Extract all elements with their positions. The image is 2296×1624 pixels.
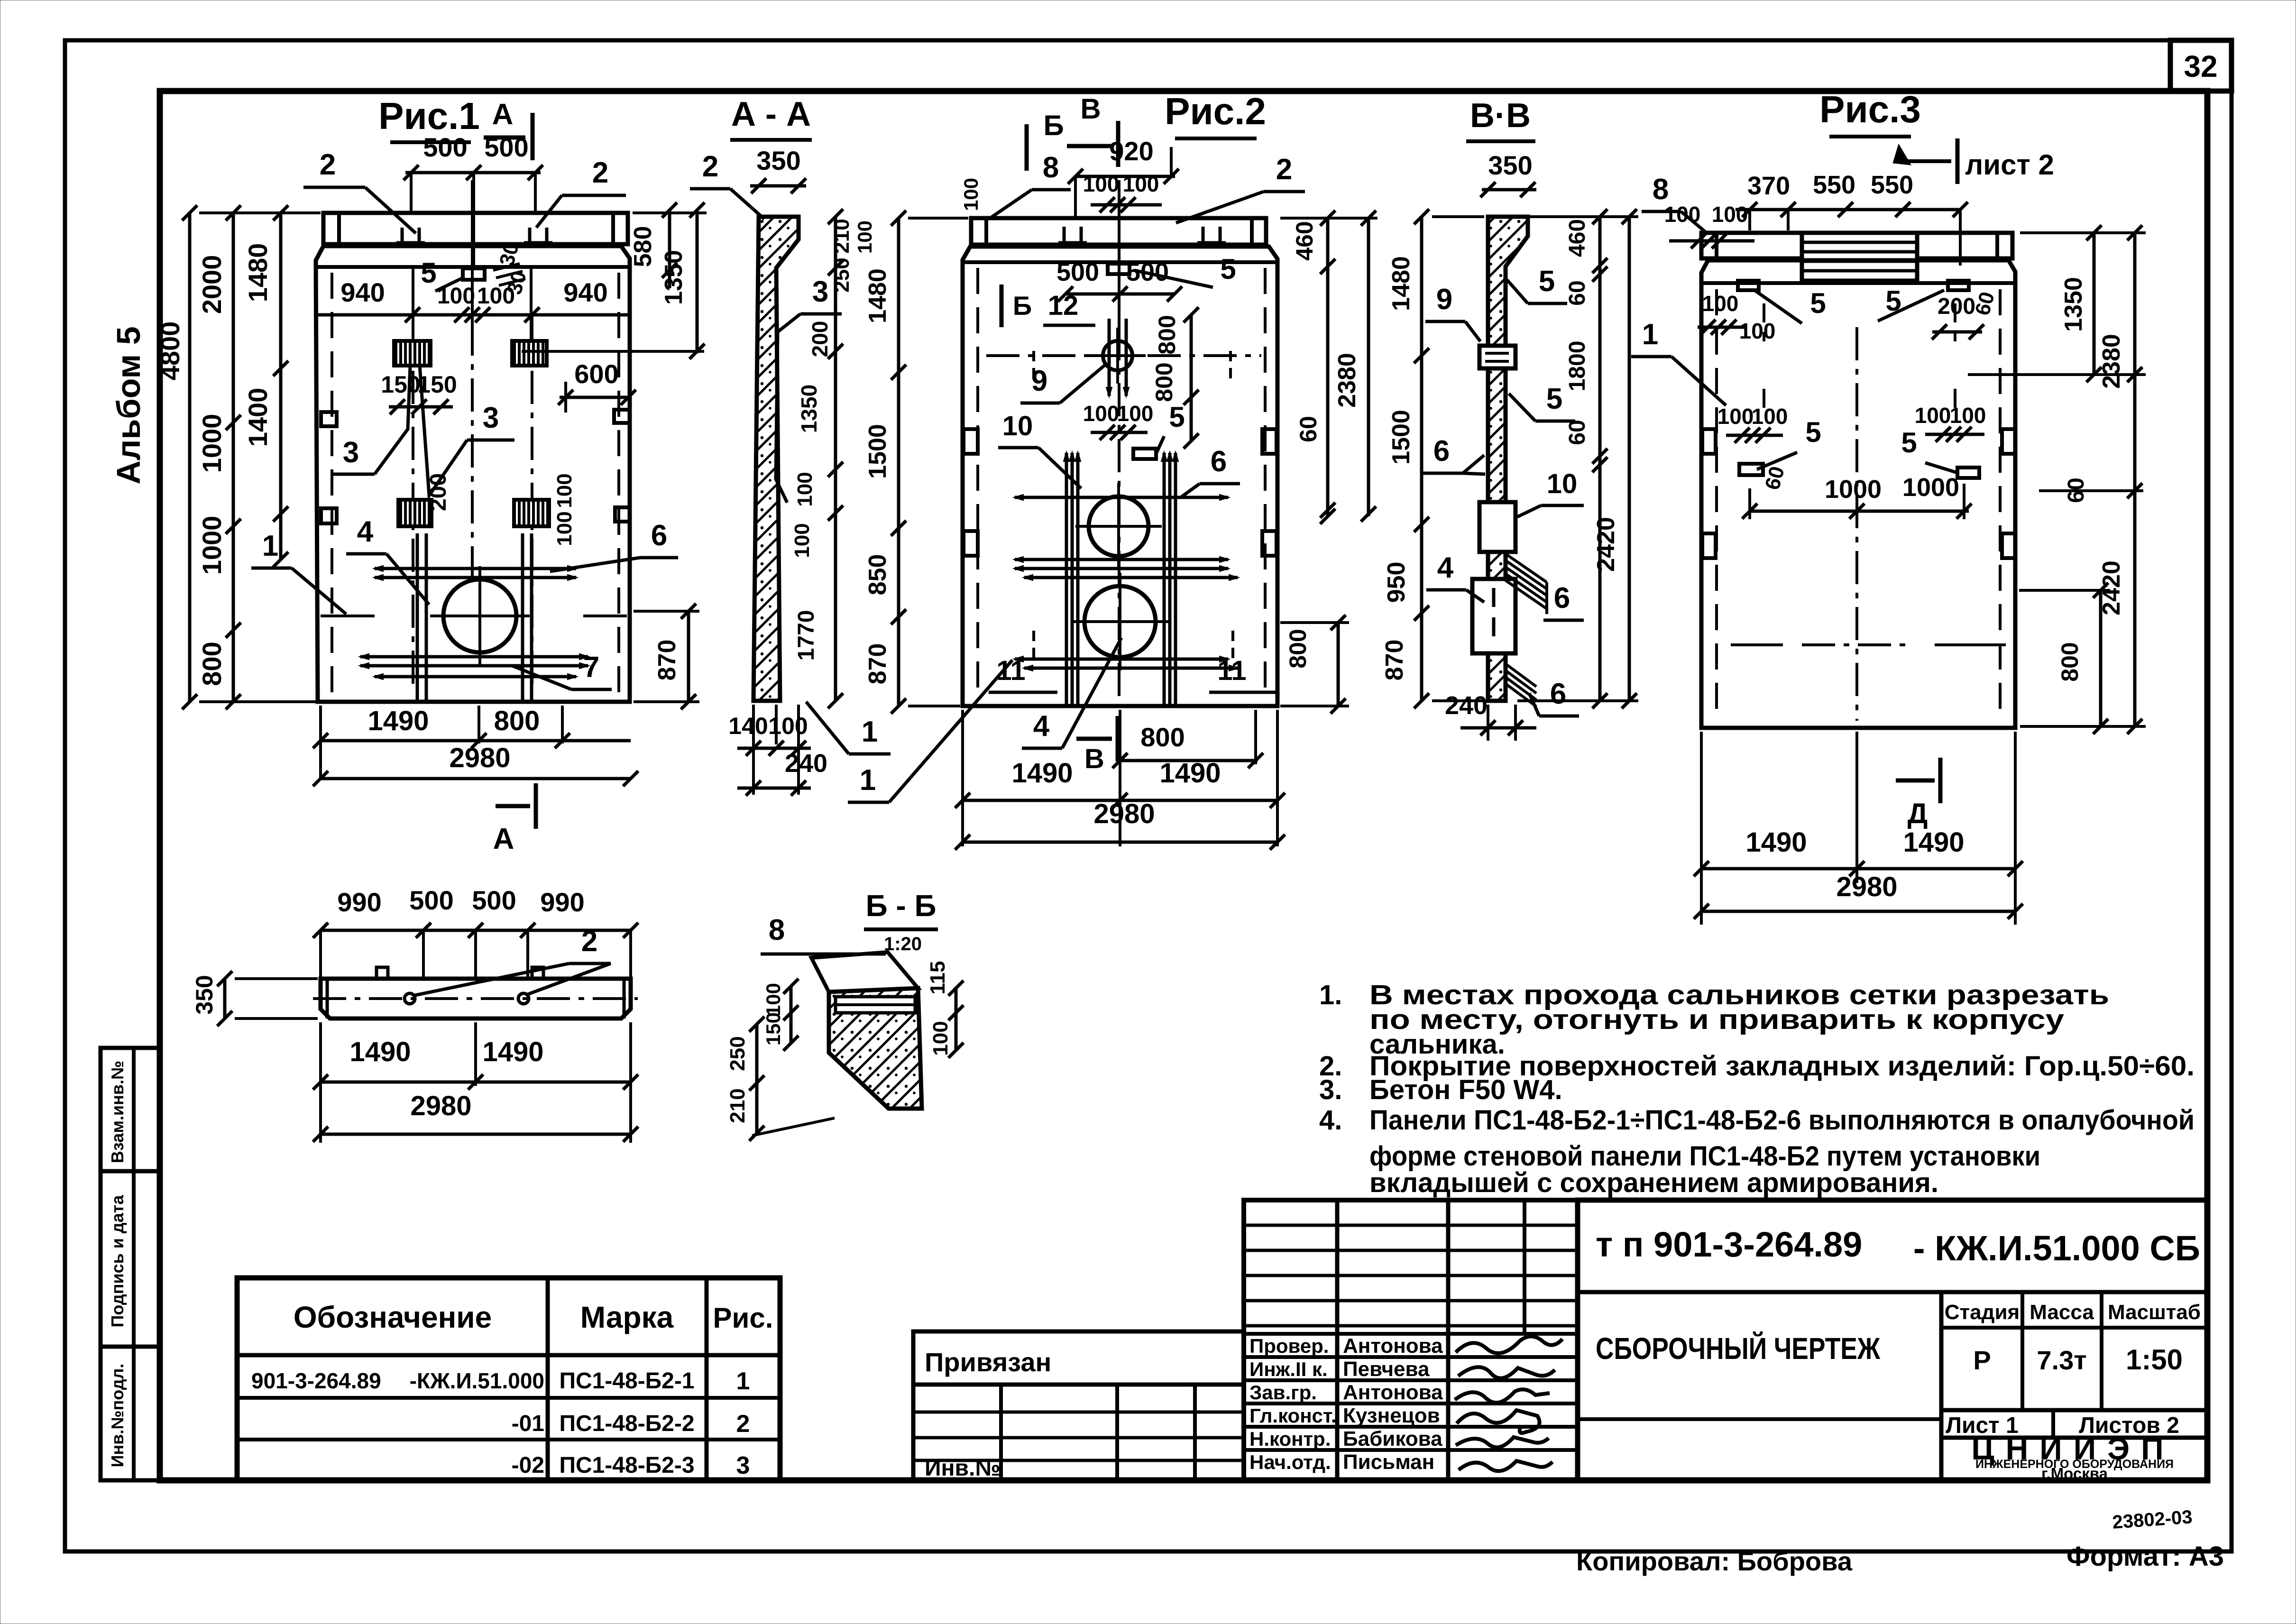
svg-text:Б: Б <box>1043 110 1064 141</box>
svg-text:3: 3 <box>812 275 828 308</box>
svg-text:Формат: А3: Формат: А3 <box>2066 1541 2224 1572</box>
svg-text:210: 210 <box>726 1088 749 1123</box>
svg-text:Инж.II к.: Инж.II к. <box>1249 1358 1328 1380</box>
svg-text:240: 240 <box>1445 691 1488 720</box>
svg-text:1350: 1350 <box>660 250 688 305</box>
svg-text:Гл.конст.: Гл.конст. <box>1249 1404 1336 1427</box>
svg-text:800: 800 <box>1151 362 1177 402</box>
svg-text:870: 870 <box>864 643 891 685</box>
svg-text:200: 200 <box>808 321 832 358</box>
svg-text:6: 6 <box>1554 582 1570 615</box>
svg-text:вкладышей с сохранением армиро: вкладышей с сохранением армирования. <box>1369 1167 1938 1198</box>
svg-text:2380: 2380 <box>1333 353 1361 408</box>
svg-text:100: 100 <box>553 511 576 546</box>
svg-text:2: 2 <box>592 156 608 189</box>
svg-text:Инв.№подл.: Инв.№подл. <box>108 1364 127 1468</box>
svg-text:Масштаб: Масштаб <box>2108 1301 2201 1324</box>
svg-text:Масса: Масса <box>2030 1301 2094 1324</box>
svg-text:Подпись и дата: Подпись и дата <box>108 1195 127 1328</box>
svg-text:11: 11 <box>1217 655 1246 686</box>
svg-text:4: 4 <box>1437 551 1454 584</box>
svg-text:т п 901-3-264.89: т п 901-3-264.89 <box>1596 1225 1862 1264</box>
svg-text:115: 115 <box>926 961 949 995</box>
svg-text:1000: 1000 <box>197 414 227 473</box>
svg-text:1: 1 <box>262 530 278 562</box>
svg-text:100: 100 <box>437 284 475 309</box>
svg-text:920: 920 <box>1109 136 1153 166</box>
svg-text:Кузнецов: Кузнецов <box>1343 1404 1440 1427</box>
svg-text:6: 6 <box>1211 445 1227 478</box>
svg-text:100: 100 <box>762 983 784 1016</box>
svg-text:500: 500 <box>472 885 516 915</box>
svg-text:1770: 1770 <box>794 610 819 661</box>
svg-text:200: 200 <box>426 473 451 511</box>
svg-text:5: 5 <box>1810 287 1826 319</box>
svg-text:Панели ПС1-48-Б2-1÷ПС1-48-Б2-6: Панели ПС1-48-Б2-1÷ПС1-48-Б2-6 выполняют… <box>1369 1105 2195 1136</box>
svg-text:1:20: 1:20 <box>884 934 922 954</box>
svg-text:350: 350 <box>756 146 800 175</box>
svg-text:870: 870 <box>653 640 681 681</box>
svg-text:370: 370 <box>1747 172 1790 200</box>
svg-text:Бабикова: Бабикова <box>1343 1427 1442 1450</box>
svg-text:2980: 2980 <box>1093 798 1155 829</box>
svg-text:Бетон F50 W4.: Бетон F50 W4. <box>1369 1074 1562 1105</box>
svg-text:100: 100 <box>1950 403 1986 428</box>
svg-text:100: 100 <box>768 713 808 739</box>
svg-text:1490: 1490 <box>1011 758 1073 789</box>
svg-text:1350: 1350 <box>797 385 821 433</box>
svg-text:580: 580 <box>629 226 657 267</box>
svg-text:-02: -02 <box>512 1453 544 1478</box>
svg-text:32: 32 <box>2184 49 2217 83</box>
svg-text:1490: 1490 <box>482 1037 543 1067</box>
svg-text:1490: 1490 <box>367 706 429 736</box>
svg-text:100: 100 <box>1117 401 1154 426</box>
svg-text:800: 800 <box>494 706 540 736</box>
svg-text:100: 100 <box>1083 172 1120 196</box>
svg-text:800: 800 <box>1285 629 1311 668</box>
svg-text:Письман: Письман <box>1343 1450 1434 1474</box>
svg-text:А - А: А - А <box>731 95 811 133</box>
svg-text:60: 60 <box>1295 416 1322 442</box>
svg-text:Б - Б: Б - Б <box>866 889 937 923</box>
svg-text:800: 800 <box>1154 315 1180 354</box>
svg-text:Д: Д <box>1908 798 1928 829</box>
svg-text:6: 6 <box>1433 435 1450 468</box>
svg-text:5: 5 <box>1901 427 1917 459</box>
svg-text:Р: Р <box>1973 1345 1991 1375</box>
svg-text:500: 500 <box>423 132 467 162</box>
svg-text:5: 5 <box>1220 253 1236 285</box>
svg-text:500: 500 <box>409 885 453 915</box>
svg-text:1480: 1480 <box>1387 256 1415 311</box>
svg-text:1000: 1000 <box>1902 473 1959 502</box>
svg-text:100: 100 <box>1739 319 1776 343</box>
svg-text:1: 1 <box>860 764 876 797</box>
svg-text:Рис.3: Рис.3 <box>1819 88 1921 130</box>
svg-text:550: 550 <box>1813 171 1855 199</box>
svg-text:100: 100 <box>477 284 515 309</box>
svg-text:2380: 2380 <box>2098 334 2125 389</box>
svg-text:150: 150 <box>381 371 420 398</box>
svg-text:100: 100 <box>1717 404 1754 429</box>
svg-text:Антонова: Антонова <box>1343 1381 1443 1404</box>
svg-text:1480: 1480 <box>864 268 891 323</box>
svg-text:1: 1 <box>736 1367 750 1395</box>
svg-text:870: 870 <box>1381 640 1408 681</box>
svg-text:8: 8 <box>1043 151 1059 184</box>
svg-text:5: 5 <box>421 257 436 289</box>
svg-text:5: 5 <box>1805 416 1821 448</box>
svg-text:2980: 2980 <box>449 743 510 773</box>
svg-text:60: 60 <box>1565 280 1590 305</box>
svg-text:А: А <box>492 98 514 131</box>
svg-text:г.Москва: г.Москва <box>2041 1465 2108 1482</box>
svg-text:940: 940 <box>340 277 385 307</box>
svg-text:ПС1-48-Б2-3: ПС1-48-Б2-3 <box>559 1453 694 1478</box>
svg-text:2420: 2420 <box>1592 517 1620 572</box>
svg-text:Инв.№: Инв.№ <box>925 1456 1001 1481</box>
svg-text:460: 460 <box>1565 219 1590 257</box>
svg-text:350: 350 <box>191 975 218 1014</box>
svg-text:1490: 1490 <box>1159 758 1221 789</box>
svg-text:350: 350 <box>1488 150 1532 180</box>
svg-text:2: 2 <box>702 150 718 183</box>
svg-text:100: 100 <box>793 472 817 506</box>
svg-text:1000: 1000 <box>1825 475 1882 504</box>
svg-text:990: 990 <box>540 887 584 917</box>
svg-text:100: 100 <box>790 523 814 558</box>
svg-text:1490: 1490 <box>349 1037 411 1067</box>
svg-text:1:50: 1:50 <box>2126 1344 2183 1376</box>
svg-text:1490: 1490 <box>1745 827 1807 858</box>
svg-text:-01: -01 <box>512 1411 544 1436</box>
svg-text:100: 100 <box>1123 172 1159 196</box>
svg-text:8: 8 <box>1653 173 1669 206</box>
svg-text:100: 100 <box>1752 404 1788 429</box>
svg-text:10: 10 <box>1002 411 1033 441</box>
svg-text:Рис.: Рис. <box>713 1302 773 1334</box>
svg-text:140: 140 <box>728 713 768 739</box>
svg-text:Зав.гр.: Зав.гр. <box>1249 1381 1317 1404</box>
svg-text:500: 500 <box>484 132 528 162</box>
svg-text:Марка: Марка <box>580 1300 674 1334</box>
svg-text:100: 100 <box>1915 403 1951 428</box>
svg-text:1: 1 <box>1642 318 1658 351</box>
svg-text:150: 150 <box>762 1012 784 1046</box>
svg-text:- КЖ.И.51.000 СБ: - КЖ.И.51.000 СБ <box>1913 1229 2200 1268</box>
svg-text:6: 6 <box>1550 678 1566 710</box>
svg-text:ПС1-48-Б2-1: ПС1-48-Б2-1 <box>559 1368 694 1394</box>
svg-text:1350: 1350 <box>2060 277 2087 332</box>
svg-text:100: 100 <box>960 178 982 211</box>
svg-text:4.: 4. <box>1319 1105 1342 1136</box>
svg-text:Б: Б <box>1013 291 1032 321</box>
svg-text:3.: 3. <box>1319 1074 1342 1105</box>
svg-text:1480: 1480 <box>243 243 273 303</box>
svg-text:Привязан: Привязан <box>925 1347 1051 1377</box>
svg-text:940: 940 <box>563 277 607 307</box>
svg-text:800: 800 <box>2057 642 2083 681</box>
svg-text:100: 100 <box>929 1021 952 1055</box>
svg-text:1400: 1400 <box>243 388 273 447</box>
svg-text:В: В <box>1084 743 1104 774</box>
svg-text:100: 100 <box>854 220 876 254</box>
svg-text:60: 60 <box>1565 420 1590 445</box>
svg-text:ПС1-48-Б2-2: ПС1-48-Б2-2 <box>559 1411 694 1436</box>
svg-text:1000: 1000 <box>197 516 227 575</box>
svg-text:800: 800 <box>1140 722 1185 752</box>
svg-text:2980: 2980 <box>410 1091 471 1121</box>
svg-text:Провер.: Провер. <box>1249 1335 1329 1357</box>
svg-text:460: 460 <box>1291 221 1318 260</box>
svg-text:-КЖ.И.51.000: -КЖ.И.51.000 <box>410 1368 544 1393</box>
svg-text:100: 100 <box>1702 291 1739 316</box>
svg-text:лист 2: лист 2 <box>1965 149 2054 181</box>
svg-text:250: 250 <box>726 1036 749 1071</box>
svg-text:5: 5 <box>1546 383 1562 415</box>
svg-text:Стадия: Стадия <box>1945 1301 2020 1324</box>
svg-text:Антонова: Антонова <box>1343 1334 1443 1358</box>
svg-text:1: 1 <box>862 716 878 748</box>
svg-text:1500: 1500 <box>864 424 891 479</box>
svg-text:950: 950 <box>1383 562 1410 603</box>
svg-text:Обозначение: Обозначение <box>294 1300 492 1334</box>
svg-text:2980: 2980 <box>1836 872 1897 902</box>
svg-text:Рис.1: Рис.1 <box>378 95 480 137</box>
svg-text:Н.контр.: Н.контр. <box>1249 1428 1331 1450</box>
svg-text:В·В: В·В <box>1470 97 1531 135</box>
svg-text:12: 12 <box>1048 290 1079 321</box>
svg-text:9: 9 <box>1436 283 1452 316</box>
svg-text:550: 550 <box>1871 171 1913 199</box>
svg-text:Альбом 5: Альбом 5 <box>110 326 147 484</box>
svg-text:В: В <box>1080 93 1101 125</box>
svg-text:Нач.отд.: Нач.отд. <box>1249 1451 1331 1473</box>
svg-text:2: 2 <box>320 148 336 181</box>
svg-text:200: 200 <box>1938 294 1975 319</box>
svg-text:3: 3 <box>343 436 359 469</box>
svg-text:Рис.2: Рис.2 <box>1165 90 1266 132</box>
svg-text:990: 990 <box>337 887 381 917</box>
svg-text:8: 8 <box>769 914 785 946</box>
svg-text:2: 2 <box>736 1410 750 1438</box>
svg-text:Копировал: Боброва: Копировал: Боброва <box>1576 1546 1853 1576</box>
svg-text:Певчева: Певчева <box>1343 1358 1430 1381</box>
svg-text:А: А <box>493 823 514 855</box>
svg-text:10: 10 <box>1547 468 1578 499</box>
svg-text:5: 5 <box>1539 265 1555 298</box>
svg-text:4800: 4800 <box>155 321 185 381</box>
svg-text:800: 800 <box>197 642 227 686</box>
svg-text:100: 100 <box>1712 202 1748 227</box>
svg-text:210: 210 <box>830 219 854 253</box>
svg-text:6: 6 <box>651 519 667 552</box>
svg-text:240: 240 <box>785 749 827 778</box>
svg-text:500: 500 <box>1056 258 1099 286</box>
svg-text:СБОРОЧНЫЙ ЧЕРТЕЖ: СБОРОЧНЫЙ ЧЕРТЕЖ <box>1596 1331 1881 1366</box>
svg-text:1800: 1800 <box>1565 341 1590 392</box>
svg-text:100: 100 <box>553 473 576 508</box>
svg-text:4: 4 <box>1033 710 1050 743</box>
svg-text:600: 600 <box>574 359 618 389</box>
svg-text:3: 3 <box>483 402 499 434</box>
svg-text:1490: 1490 <box>1903 827 1964 858</box>
svg-text:2: 2 <box>1276 153 1292 186</box>
svg-text:3: 3 <box>736 1452 750 1479</box>
svg-text:5: 5 <box>1169 401 1185 433</box>
svg-text:2000: 2000 <box>197 255 227 314</box>
svg-text:1.: 1. <box>1319 980 1342 1010</box>
svg-text:850: 850 <box>864 554 891 596</box>
svg-text:7.3т: 7.3т <box>2037 1345 2086 1375</box>
svg-text:7: 7 <box>583 651 599 684</box>
svg-text:100: 100 <box>1083 401 1120 426</box>
svg-text:1500: 1500 <box>1387 410 1415 465</box>
svg-text:4: 4 <box>357 515 374 548</box>
svg-text:901-3-264.89: 901-3-264.89 <box>251 1368 381 1393</box>
svg-text:Взам.инв.№: Взам.инв.№ <box>108 1061 127 1163</box>
